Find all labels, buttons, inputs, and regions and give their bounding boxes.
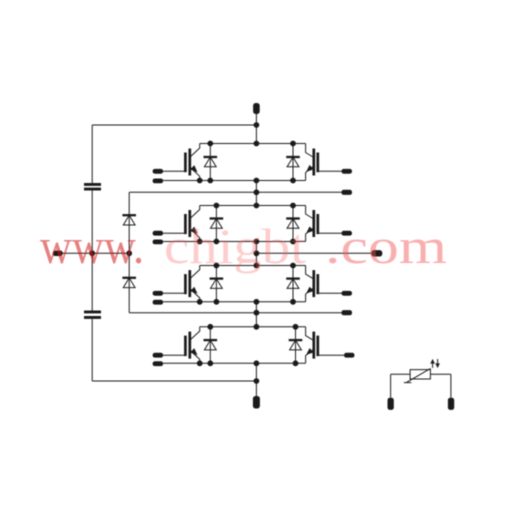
svg-text:www.: www. [40, 218, 144, 274]
svg-text:chigbt: chigbt [164, 218, 306, 274]
svg-text:.com: .com [325, 218, 447, 274]
